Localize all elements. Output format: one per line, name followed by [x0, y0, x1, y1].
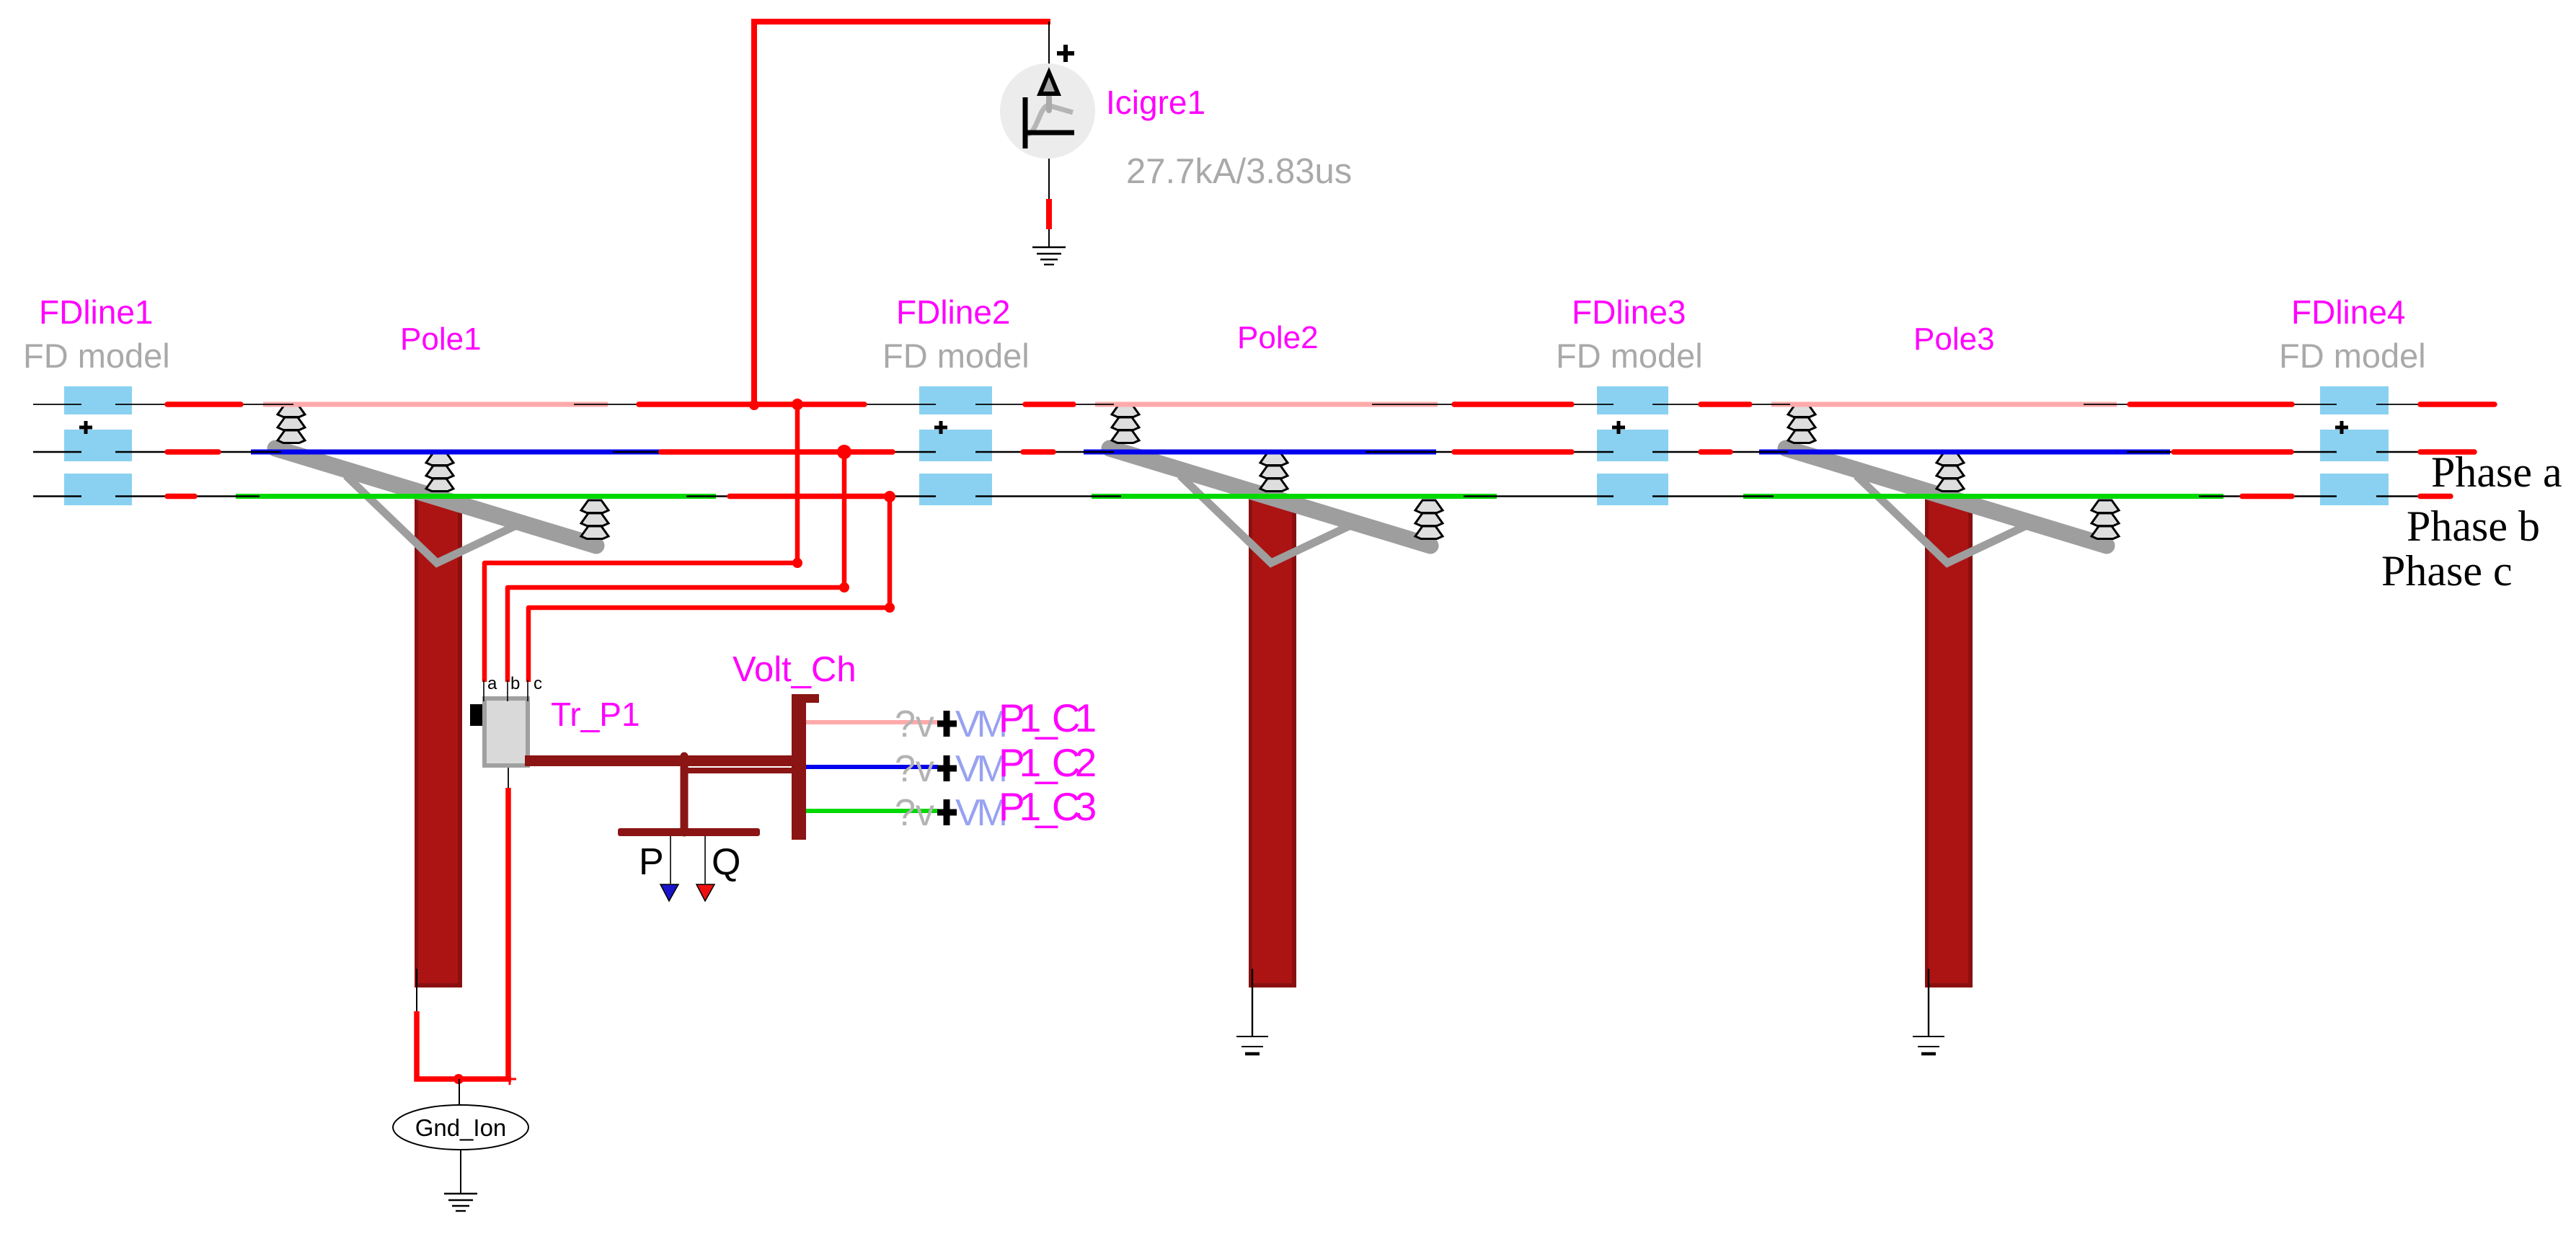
wire: transformer neutral lead (black) [508, 768, 509, 788]
svg-text:FDline2: FDline2 [896, 293, 1011, 331]
svg-text:27.7kA/3.83us: 27.7kA/3.83us [1126, 152, 1352, 191]
wire: transformer neutral to ground bus (red) [505, 788, 511, 1081]
phase b conductor: blue spans [251, 450, 2170, 455]
wire: P1_C1 measurement lead [806, 720, 938, 724]
ground (below Icigre1) [1032, 247, 1066, 265]
wire: tap phase c to transformer pin c (red) [528, 497, 890, 682]
svg-text:Volt_Ch: Volt_Ch [732, 650, 857, 689]
node: junction on phase a [792, 399, 803, 410]
node: junction on phase c [884, 491, 895, 502]
wire: P1_C3 measurement lead [806, 809, 938, 813]
node: junction Icigre drop on phase a [749, 400, 759, 410]
wire: pole1 base lead (black) [416, 969, 417, 1011]
svg-text:Icigre1: Icigre1 [1106, 84, 1205, 121]
svg-text:Tr_P1: Tr_P1 [551, 696, 640, 733]
node: plus terminal (P1_C1) [937, 711, 957, 737]
wire: phase b black segments [33, 451, 2420, 453]
node: plus terminal (P1_C3) [937, 799, 957, 825]
svg-text:Phase c: Phase c [2381, 547, 2513, 595]
bus: load drop [681, 756, 689, 833]
wire: tap phase a to transformer pin a (red) [484, 404, 797, 682]
node: wire end cross [503, 1073, 516, 1085]
label FDline3 [1556, 293, 1703, 375]
svg-text:Phase b: Phase b [2407, 502, 2540, 550]
svg-text:Gnd_Ion: Gnd_Ion [415, 1114, 507, 1141]
wire: Gnd_Ion bottom lead [460, 1150, 461, 1194]
svg-text:Q: Q [712, 841, 740, 883]
bus: load bottom bar [618, 828, 760, 836]
node: plus terminal (P1_C2) [937, 755, 957, 781]
svg-text:c: c [534, 674, 542, 693]
svg-text:b: b [510, 674, 520, 693]
wood pole Pole3 (mast + crossarm + brace + insulators) [1786, 404, 2119, 987]
svg-text:P: P [639, 841, 664, 883]
wire: phase a red (energized) segments [167, 401, 2495, 407]
wire: P1_C2 measurement lead [806, 765, 938, 769]
ground-impedance element Gnd_Ion [393, 1105, 528, 1150]
wire: phase c black segments [33, 495, 2420, 497]
svg-text:FDline3: FDline3 [1572, 293, 1686, 331]
label FDline2 [882, 293, 1030, 375]
wire: phase c red (energized) segments [167, 494, 2451, 500]
ground (below Gnd_Ion) [444, 1194, 477, 1211]
wire: P lead [670, 836, 671, 884]
svg-text:?v: ?v [895, 703, 934, 745]
voltage channel block Volt_Ch [792, 694, 819, 840]
svg-text:FD model: FD model [1556, 337, 1703, 375]
FD line block FDline3 [1597, 386, 1668, 505]
svg-text:P1_C2: P1_C2 [999, 740, 1095, 785]
svg-text:FDline4: FDline4 [2291, 293, 2406, 331]
svg-text:?v: ?v [895, 792, 934, 834]
label FDline4 [2279, 293, 2426, 375]
wire: phase b red (energized) segments [167, 449, 2474, 455]
FD line block FDline1 [64, 386, 132, 505]
svg-text:FD model: FD model [2279, 337, 2426, 375]
node: corner dot wire a [792, 558, 802, 568]
svg-text:Pole3: Pole3 [1913, 321, 1995, 357]
svg-text:Pole2: Pole2 [1237, 320, 1319, 355]
wood pole Pole2 (mast + crossarm + brace + insulators) [1110, 404, 1443, 987]
wood pole Pole1 (mast + crossarm + brace + insulators) [275, 404, 608, 987]
bus: transformer output to Volt_Ch [525, 755, 793, 766]
arrow Q (reactive power, red) [696, 884, 714, 901]
label FDline1 [23, 293, 170, 375]
svg-text:P1_C1: P1_C1 [999, 696, 1095, 740]
transformer Tr_P1 [470, 680, 530, 768]
svg-text:FD model: FD model [23, 337, 170, 375]
wire: pole2 base lead (black) [1252, 969, 1253, 1037]
node: junction on phase b [837, 445, 851, 459]
phase a conductor: pink spans [263, 402, 2117, 407]
wire: Q lead [704, 836, 706, 884]
svg-text:Pole1: Pole1 [400, 321, 482, 357]
svg-text:FDline1: FDline1 [39, 293, 154, 331]
wire: phase a black segments [33, 404, 2420, 405]
wire: tap phase b to transformer pin b (red) [508, 452, 844, 682]
wire: pole3 base lead (black) [1928, 969, 1929, 1037]
svg-text:?v: ?v [895, 748, 934, 790]
wire: Gnd_Ion top lead (black) [459, 1079, 460, 1106]
arrow P (active power, blue) [660, 884, 678, 901]
phase c conductor: green spans [236, 494, 2223, 499]
node: corner dot wire b [839, 582, 849, 592]
FD line block FDline2 [919, 386, 992, 505]
svg-text:FD model: FD model [882, 337, 1030, 375]
ground (below pole3) [1913, 1037, 1944, 1054]
FD line block FDline4 [2320, 386, 2389, 505]
bus: lower link to Volt_Ch [684, 768, 792, 773]
node: junction to Gnd_Ion [453, 1074, 464, 1084]
node: corner dot wire c [885, 603, 895, 613]
wire: Icigre1 source top lead (red) [754, 22, 1050, 407]
svg-text:P1_C3: P1_C3 [999, 784, 1096, 829]
svg-text:a: a [487, 674, 497, 693]
wire: pole1 ground bus (red) [417, 1011, 511, 1079]
svg-text:Phase a: Phase a [2431, 448, 2562, 496]
ground (below pole2) [1236, 1037, 1268, 1054]
current source Icigre1 [1000, 22, 1095, 247]
